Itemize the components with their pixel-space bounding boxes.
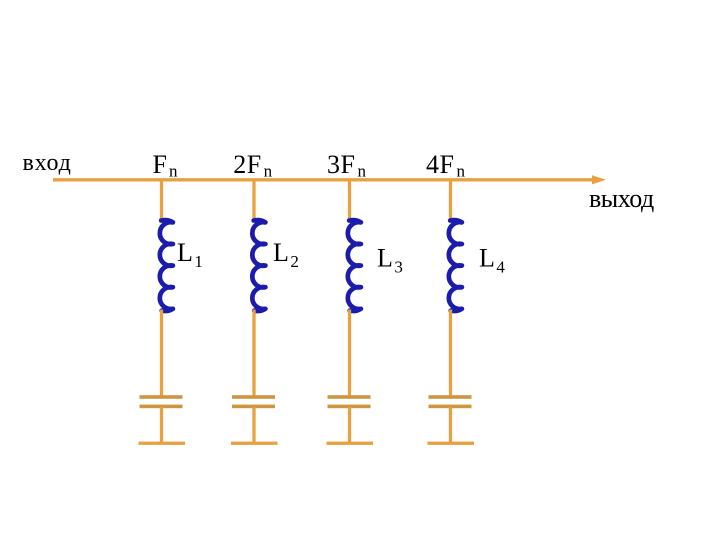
wire: branch 2 from C2 to ground bar — [252, 407, 255, 443]
ground bar 2 — [231, 442, 278, 445]
wire: branch 4 from C4 to ground bar — [449, 407, 452, 443]
capacitor C2 — [232, 395, 275, 408]
inductor L2 coil — [252, 220, 265, 311]
svg-text:2Fn: 2Fn — [233, 150, 272, 181]
svg-text:выход: выход — [589, 184, 654, 213]
wire: branch 3 from L3 to C3 — [348, 310, 351, 398]
capacitor C4 — [429, 395, 472, 408]
wire: branch 4 from bus to L4 — [449, 180, 452, 220]
capacitor C3 — [328, 395, 371, 408]
inductor L4 coil — [449, 220, 462, 311]
wire: branch 3 from bus to L3 — [348, 180, 351, 220]
wire: branch 1 from bus to L1 — [160, 180, 163, 220]
svg-text:L1: L1 — [177, 238, 203, 271]
svg-text:L4: L4 — [479, 243, 505, 276]
svg-text:Fn: Fn — [153, 150, 178, 181]
inductor L3 coil — [348, 220, 361, 311]
ground bar 1 — [139, 442, 186, 445]
wire: branch 2 from bus to L2 — [252, 180, 255, 220]
ground bar 4 — [428, 442, 475, 445]
wire: branch 1 from C1 to ground bar — [160, 407, 163, 443]
capacitor C1 — [140, 395, 183, 408]
svg-text:L3: L3 — [377, 243, 403, 276]
svg-text:4Fn: 4Fn — [426, 150, 465, 181]
svg-text:вход: вход — [23, 150, 72, 176]
wire: branch 2 from L2 to C2 — [252, 310, 255, 398]
ground bar 3 — [327, 442, 374, 445]
inductor L1 coil — [160, 220, 173, 311]
svg-text:L2: L2 — [273, 238, 299, 271]
wire: main horizontal bus from input to output with arrowhead — [53, 175, 606, 184]
svg-text:3Fn: 3Fn — [327, 150, 366, 181]
wire: branch 1 from L1 to C1 — [160, 310, 163, 398]
wire: branch 4 from L4 to C4 — [449, 310, 452, 398]
wire: branch 3 from C3 to ground bar — [348, 407, 351, 443]
